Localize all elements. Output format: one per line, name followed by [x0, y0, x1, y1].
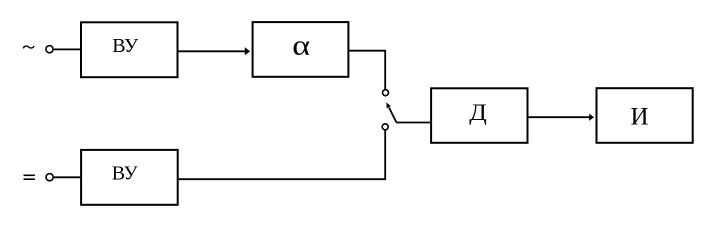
- svg-text:ВУ: ВУ: [112, 35, 139, 57]
- svg-text:Д: Д: [469, 100, 487, 125]
- svg-text:ВУ: ВУ: [112, 163, 139, 185]
- svg-text:α: α: [292, 29, 310, 61]
- svg-text:И: И: [630, 103, 648, 130]
